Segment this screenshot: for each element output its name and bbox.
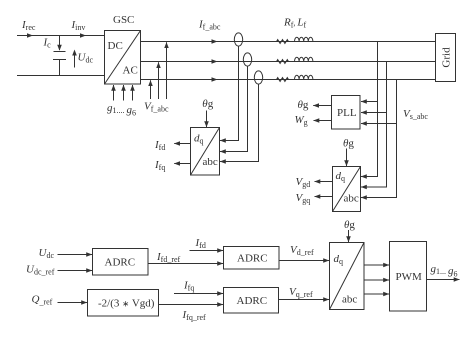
wire I_fd_ref ADRC1 to ADRC2 — [148, 263, 223, 265]
gate drive arrows g1..g6 — [114, 85, 133, 101]
svg-text:If_abc: If_abc — [198, 19, 221, 32]
svg-text:abc: abc — [344, 193, 359, 205]
current sensor CT a — [234, 33, 242, 46]
resistor R_f phase b — [277, 60, 289, 64]
arrow U_dc measurement — [72, 50, 77, 68]
svg-text:Ifd_ref: Ifd_ref — [156, 251, 181, 264]
arrow theta_g out of PLL — [313, 105, 331, 107]
block PWM — [390, 242, 427, 312]
svg-text:θg: θg — [298, 99, 309, 111]
capacitor C (DC link) — [53, 36, 66, 76]
wire CT a to abc-dq1 — [220, 46, 239, 140]
svg-text:θg: θg — [202, 98, 213, 110]
wire U_dc into ADRC1 — [58, 254, 93, 256]
wire I_fd into ADRC2 — [190, 250, 224, 252]
svg-text:Iinv: Iinv — [71, 19, 86, 32]
transform block abc-dq (currents) — [191, 128, 220, 176]
arrow theta_g into Vg dq block — [346, 149, 348, 167]
svg-text:Ifq: Ifq — [183, 280, 194, 293]
svg-text:-2/(3 ∗ Vgd): -2/(3 ∗ Vgd) — [98, 298, 155, 310]
svg-text:DC: DC — [108, 40, 123, 52]
wire I_fq_ref gain to ADRC3 — [159, 304, 224, 306]
svg-text:abc: abc — [203, 156, 218, 168]
wire PWM output g1..g6 — [427, 279, 460, 281]
svg-text:ADRC: ADRC — [105, 257, 136, 269]
svg-text:AC: AC — [123, 65, 138, 77]
svg-text:Udc_ref: Udc_ref — [26, 264, 55, 277]
svg-text:Rf, Lf: Rf, Lf — [283, 16, 307, 29]
wire CT b to abc-dq1 — [220, 66, 248, 151]
wire CT c to abc-dq1 — [220, 84, 259, 161]
arrow W_g out of PLL — [314, 120, 332, 122]
svg-text:PWM: PWM — [396, 271, 423, 283]
transform block dq-abc — [330, 243, 365, 310]
wire tap phase a to PLL/dq — [361, 42, 378, 177]
svg-text:dq: dq — [334, 253, 344, 266]
svg-text:Ifd: Ifd — [154, 139, 165, 152]
arrow theta_g into dq-abc block — [348, 230, 350, 242]
wire V_d_ref ADRC2 to dq — [279, 260, 329, 262]
arrow I_fq out — [174, 163, 190, 165]
svg-text:g1.... g6: g1.... g6 — [107, 102, 136, 117]
arrow V_gd out — [315, 181, 333, 183]
converter block GSC (DC/AC) — [105, 31, 141, 85]
svg-text:ADRC: ADRC — [237, 252, 268, 264]
svg-text:dq: dq — [194, 133, 204, 146]
current sensor CT c — [254, 71, 262, 84]
svg-text:Vd_ref: Vd_ref — [290, 244, 314, 257]
svg-text:Ifq: Ifq — [154, 159, 165, 172]
inductor L_f phase a — [295, 37, 313, 41]
transform block abc-dq (Vg) — [333, 167, 361, 212]
wire I_fq into ADRC3 — [174, 293, 223, 295]
svg-text:g1... g6: g1... g6 — [431, 263, 458, 278]
svg-text:Ifq_ref: Ifq_ref — [182, 309, 207, 322]
block ADRC3 — [224, 288, 279, 314]
gain block -2/(3*Vgd) — [88, 290, 159, 317]
svg-text:Wg: Wg — [295, 114, 308, 127]
wire DC bus negative — [17, 75, 105, 77]
svg-text:Vq_ref: Vq_ref — [289, 286, 313, 299]
svg-text:abc: abc — [342, 294, 357, 306]
arrow I_fd out — [174, 143, 190, 145]
svg-text:Vf_abc: Vf_abc — [144, 101, 169, 114]
svg-text:Q_ref: Q_ref — [32, 294, 53, 307]
wire AC phase a — [141, 39, 436, 44]
wires dq-abc to PWM — [364, 265, 389, 294]
svg-text:Udc: Udc — [78, 52, 94, 65]
block ADRC2 — [224, 247, 280, 270]
arrows V_f_abc measurement — [151, 42, 167, 99]
svg-text:Vgq: Vgq — [296, 192, 311, 205]
block Grid — [436, 34, 456, 82]
wire V_q_ref ADRC3 to dq — [279, 299, 330, 301]
wire AC phase b — [141, 59, 436, 64]
svg-text:Vs_abc: Vs_abc — [403, 108, 428, 121]
arrow theta_g into current dq block — [206, 111, 208, 128]
svg-text:Ifd: Ifd — [195, 237, 206, 250]
resistor R_f phase c — [277, 78, 289, 82]
wire AC phase c — [141, 77, 436, 82]
svg-text:ADRC: ADRC — [237, 295, 268, 307]
inductor L_f phase b — [295, 57, 313, 61]
svg-text:dq: dq — [336, 170, 346, 183]
wire U_dc_ref into ADRC1 — [58, 270, 93, 272]
current sensor CT b — [243, 53, 251, 66]
svg-text:GSC: GSC — [113, 14, 134, 26]
wire tap phase b to PLL/dq — [361, 62, 387, 188]
svg-text:θg: θg — [343, 138, 354, 150]
wire DC bus positive — [17, 33, 105, 38]
svg-text:Grid: Grid — [441, 47, 453, 68]
block PLL — [332, 96, 361, 130]
svg-text:Irec: Irec — [21, 19, 36, 32]
inductor L_f phase c — [295, 75, 313, 79]
wire Q_ref into gain block — [58, 302, 88, 304]
block ADRC1 — [93, 249, 149, 276]
svg-text:PLL: PLL — [337, 107, 357, 119]
svg-text:Ic: Ic — [43, 37, 52, 50]
svg-text:Udc: Udc — [39, 247, 55, 260]
wire tap phase c to PLL/dq — [361, 80, 397, 198]
arrow V_gq out — [315, 196, 333, 198]
svg-text:Vgd: Vgd — [296, 176, 311, 189]
resistor R_f phase a — [277, 40, 289, 44]
svg-text:θg: θg — [344, 219, 355, 231]
